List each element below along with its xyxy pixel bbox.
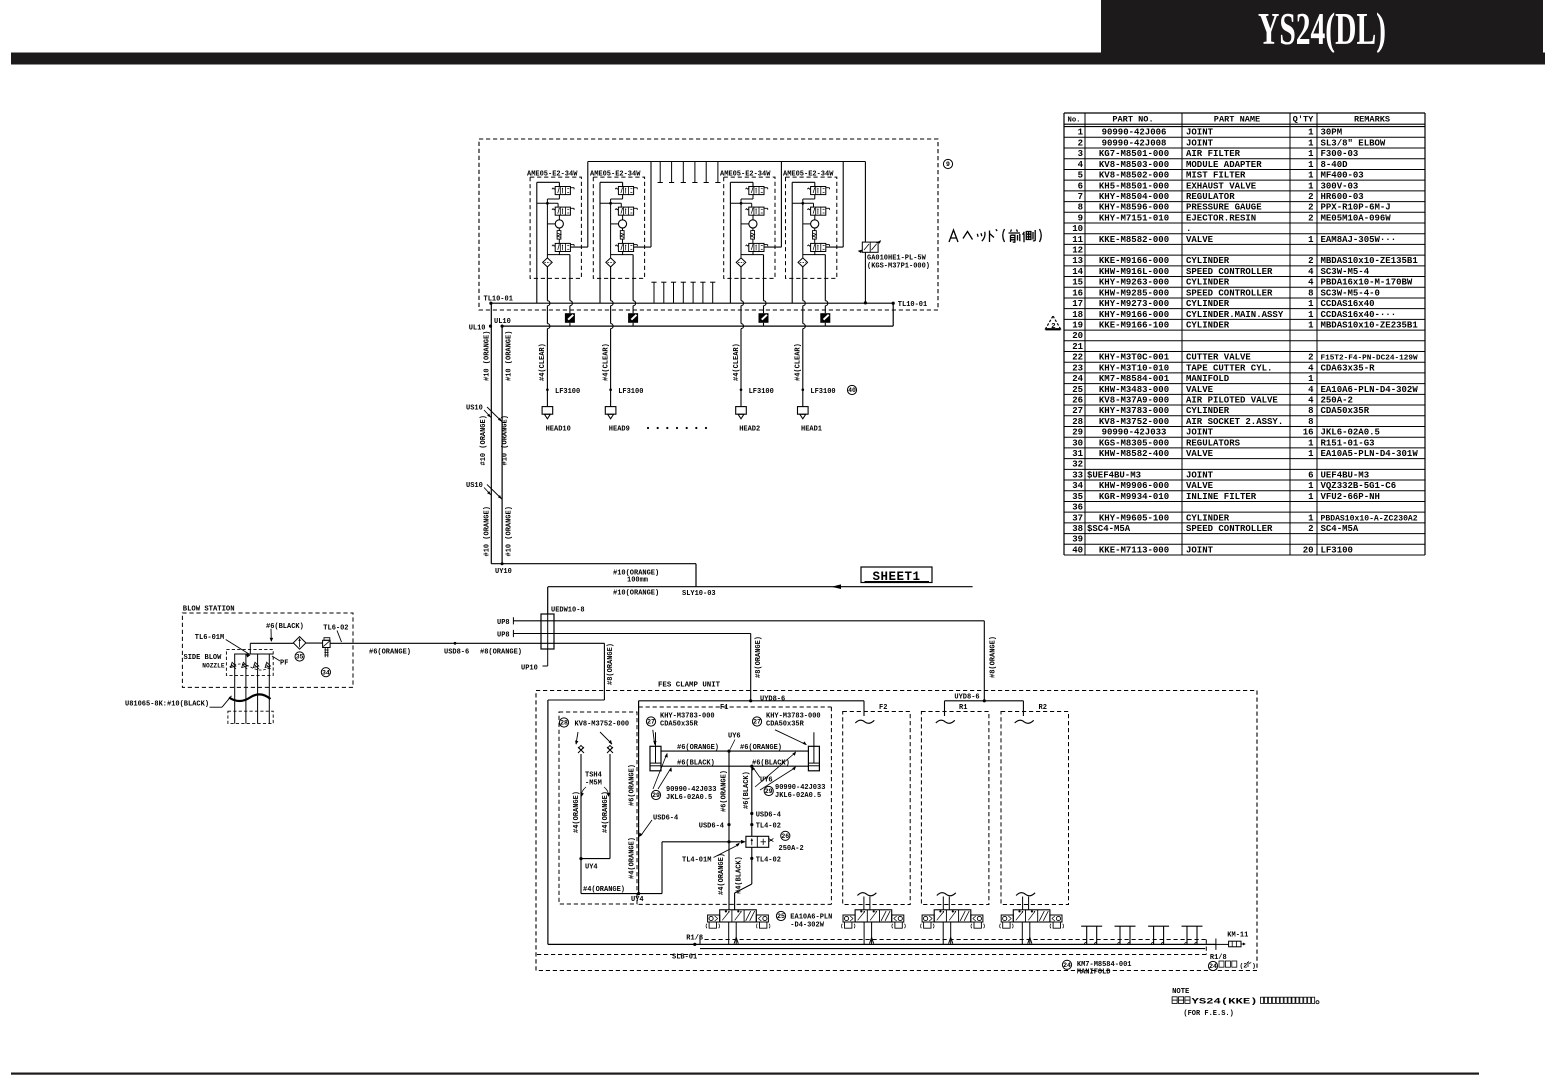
svg-text:MF400-03: MF400-03 (1321, 171, 1364, 181)
svg-text:33: 33 (1072, 470, 1083, 480)
svg-text:#6(ORANGE): #6(ORANGE) (369, 648, 411, 656)
svg-text:4: 4 (1308, 278, 1314, 288)
manifold port pair (1182, 926, 1203, 945)
valve group AME05 #1 (527, 162, 588, 407)
svg-text:CYLINDER: CYLINDER (1186, 406, 1230, 416)
label UY6 top (728, 733, 741, 750)
nozzles (184, 643, 274, 723)
wire #6 orange drop (727, 751, 730, 843)
label #6(BLACK) blow (266, 623, 304, 642)
svg-text:22: 22 (1072, 353, 1083, 363)
label UP10 (521, 649, 548, 672)
svg-text:SPEED CONTROLLER: SPEED CONTROLLER (1186, 267, 1273, 277)
label TL4-01M (682, 843, 740, 865)
svg-text:90990-42J033: 90990-42J033 (775, 784, 825, 792)
joint LF3100 / HEAD10 (539, 343, 580, 433)
svg-text:PART NAME: PART NAME (1214, 115, 1260, 125)
label UL10 (stub) (469, 325, 492, 333)
svg-text:KHY-M8504-000: KHY-M8504-000 (1099, 192, 1169, 202)
svg-text:2: 2 (1308, 192, 1313, 202)
ellipsis dots (647, 427, 707, 429)
svg-text:1: 1 (1078, 128, 1084, 138)
svg-text:EAM8AJ-305W···: EAM8AJ-305W··· (1321, 235, 1397, 245)
filter diamond circled 35 (293, 637, 306, 662)
svg-text:CYLINDER: CYLINDER (1186, 320, 1230, 330)
svg-text:25: 25 (1072, 385, 1083, 395)
svg-text:GA010HE1-PL-5W: GA010HE1-PL-5W (867, 255, 927, 263)
svg-text:#10 (ORANGE): #10 (ORANGE) (483, 506, 491, 556)
svg-text:#6(ORANGE): #6(ORANGE) (720, 770, 728, 812)
svg-text:31: 31 (1072, 449, 1083, 459)
label US10 upper (466, 405, 502, 422)
svg-text:#4(BLACK): #4(BLACK) (736, 856, 744, 894)
svg-text:MBDAS10x10-ZE135B1: MBDAS10x10-ZE135B1 (1321, 256, 1419, 266)
svg-text:1: 1 (1308, 299, 1314, 309)
svg-text:KV8-M8503-000: KV8-M8503-000 (1099, 160, 1169, 170)
circled 9 (ejector ref) (943, 159, 952, 168)
A-head enclosure dashed box (479, 139, 938, 310)
wire top manifold (588, 161, 866, 163)
svg-text:HEAD1: HEAD1 (801, 425, 822, 433)
svg-text:LF3100: LF3100 (618, 388, 643, 396)
svg-text:#6(BLACK): #6(BLACK) (752, 759, 790, 767)
svg-text:#10 (ORANGE): #10 (ORANGE) (502, 415, 510, 465)
wire #6 orange bus F1 (661, 750, 808, 753)
svg-text:1: 1 (1308, 481, 1314, 491)
svg-text:2: 2 (1308, 256, 1313, 266)
svg-text:BLOW STATION: BLOW STATION (183, 606, 235, 614)
valve group AME05 #4 (783, 162, 843, 407)
svg-text:FES CLAMP UNIT: FES CLAMP UNIT (658, 682, 721, 690)
svg-text:AME05-E2-34W: AME05-E2-34W (783, 170, 834, 178)
svg-text:.: . (1186, 224, 1191, 234)
svg-text:#10 (ORANGE): #10 (ORANGE) (483, 331, 491, 381)
manifold port pair (1148, 926, 1169, 945)
manifold port pair (1115, 926, 1136, 945)
svg-text:8-40D: 8-40D (1321, 160, 1349, 170)
svg-text:SC3W-M5-4: SC3W-M5-4 (1321, 267, 1370, 277)
valve group AME05 #3 (720, 162, 781, 407)
svg-text:R151-01-G3: R151-01-G3 (1321, 438, 1375, 448)
stubs from TL10-01 (bottom comb) (651, 282, 715, 303)
svg-text:VALVE: VALVE (1186, 235, 1214, 245)
wire UY10 header (491, 562, 696, 587)
bundle wavy + cable label (125, 694, 271, 708)
svg-text:30: 30 (1072, 438, 1083, 448)
svg-text:#8(ORANGE): #8(ORANGE) (480, 648, 522, 656)
svg-text:30PM: 30PM (1321, 128, 1343, 138)
svg-text:TL4-02: TL4-02 (756, 822, 781, 830)
svg-text:#6(BLACK): #6(BLACK) (743, 771, 751, 809)
svg-text:23: 23 (1072, 363, 1083, 373)
svg-text:4: 4 (1308, 267, 1314, 277)
svg-text:16: 16 (1303, 428, 1314, 438)
label GA010HE1 (867, 255, 930, 271)
svg-text:KHY-M9273-000: KHY-M9273-000 (1099, 299, 1169, 309)
valve stem stub (857, 893, 876, 910)
svg-text:JOINT: JOINT (1186, 428, 1214, 438)
svg-text:20: 20 (1072, 331, 1083, 341)
svg-text:F1: F1 (720, 704, 728, 712)
svg-text:#4(CLEAR): #4(CLEAR) (602, 343, 610, 381)
svg-text:28: 28 (560, 720, 568, 727)
wire SLB-01 bus (548, 936, 1216, 950)
svg-text:LF3100: LF3100 (810, 388, 835, 396)
svg-text:REMARKS: REMARKS (1354, 115, 1390, 125)
svg-text:JOINT: JOINT (1186, 470, 1214, 480)
svg-text:-D4-302W: -D4-302W (790, 922, 824, 930)
svg-text:100mm: 100mm (627, 576, 648, 584)
junction block UEDW10-8 (541, 587, 554, 649)
wire F1 left pipe (638, 701, 640, 894)
svg-text:HEAD10: HEAD10 (546, 425, 571, 433)
svg-text:CCDAS16x40-···: CCDAS16x40-··· (1321, 310, 1397, 320)
svg-text:1: 1 (1308, 438, 1314, 448)
svg-text:PBDAS10x10-A-ZC230A2: PBDAS10x10-A-ZC230A2 (1321, 514, 1418, 523)
svg-text:LF3100: LF3100 (749, 388, 774, 396)
svg-text:VALVE: VALVE (1186, 481, 1214, 491)
svg-text:8: 8 (1308, 406, 1313, 416)
label USD6-4 #1 (639, 814, 679, 837)
svg-text:34: 34 (322, 669, 330, 676)
svg-text:#4(ORANGE): #4(ORANGE) (583, 886, 625, 894)
svg-text:USD6-4: USD6-4 (653, 814, 678, 822)
svg-text:JOINT: JOINT (1186, 545, 1214, 555)
svg-text:US10: US10 (466, 482, 483, 490)
svg-text:AME05-E2-34W: AME05-E2-34W (720, 170, 771, 178)
svg-text:US10: US10 (466, 405, 483, 413)
silencer KM-11 (1216, 931, 1248, 946)
wire #8 down into FES (548, 643, 605, 944)
svg-text:8: 8 (1078, 203, 1083, 213)
svg-text:#10(ORANGE): #10(ORANGE) (613, 589, 659, 597)
circled 29 right (755, 751, 825, 800)
svg-text:2: 2 (1308, 213, 1313, 223)
svg-text:CYLINDER: CYLINDER (1186, 256, 1230, 266)
wire pilot TL4-01M (662, 840, 746, 844)
svg-text:F15T2-F4-PN-DC24-129W: F15T2-F4-PN-DC24-129W (1321, 355, 1418, 363)
svg-text:2: 2 (1308, 524, 1313, 534)
wire #6 black bus F1 (661, 765, 808, 768)
svg-text:ME05M10A-096W: ME05M10A-096W (1321, 213, 1392, 223)
svg-text:#8(ORANGE): #8(ORANGE) (990, 636, 998, 678)
svg-text:1: 1 (1308, 138, 1314, 148)
circled 25 EA label (776, 911, 832, 929)
svg-text:R1/8: R1/8 (686, 935, 703, 943)
labels on blow line (369, 648, 522, 656)
svg-text:KV8-M3752-000: KV8-M3752-000 (1099, 417, 1169, 427)
valve EA10A6 #4 (1000, 910, 1064, 945)
svg-text:6: 6 (1308, 470, 1313, 480)
svg-text:KH5-M8501-000: KH5-M8501-000 (1099, 181, 1169, 191)
svg-text:4: 4 (1078, 160, 1084, 170)
svg-text:AME05-E2-34W: AME05-E2-34W (590, 170, 641, 178)
valve stem stub (1016, 893, 1035, 910)
svg-text:1: 1 (1308, 160, 1314, 170)
svg-text:SLY10-03: SLY10-03 (682, 590, 716, 598)
svg-text:R1: R1 (959, 704, 967, 712)
section box R1 (921, 704, 989, 905)
svg-text:4: 4 (1308, 385, 1314, 395)
wire blow main line (250, 642, 604, 645)
wire #6 black drop (750, 766, 753, 836)
section box R2 (1001, 704, 1069, 905)
svg-text:UP8: UP8 (497, 632, 510, 640)
svg-text:20: 20 (1303, 545, 1314, 555)
svg-text:40: 40 (1072, 545, 1083, 555)
manifold dashed box (537, 940, 1206, 955)
svg-text:13: 13 (1072, 256, 1083, 266)
svg-text:EA10A6-PLN-D4-302W: EA10A6-PLN-D4-302W (1321, 385, 1419, 395)
label manifold KM7 (1062, 960, 1131, 976)
svg-text:CYLINDER: CYLINDER (1186, 513, 1230, 523)
wire SLY10-03 (548, 584, 973, 589)
svg-text:#4(ORANGE): #4(ORANGE) (629, 837, 637, 879)
svg-text:NOTE: NOTE (1172, 988, 1190, 996)
caption A-head (front side) (949, 229, 1041, 242)
svg-text:$UEF4BU-M3: $UEF4BU-M3 (1087, 470, 1141, 480)
top rule bar (11, 53, 1545, 65)
svg-text:KKE-M9166-000: KKE-M9166-000 (1099, 256, 1169, 266)
svg-text:35: 35 (296, 654, 304, 661)
svg-text:UY4: UY4 (631, 896, 644, 904)
svg-text:36: 36 (1072, 503, 1083, 513)
svg-text:KV8-M8502-000: KV8-M8502-000 (1099, 171, 1169, 181)
svg-text:KHY-M7151-010: KHY-M7151-010 (1099, 213, 1169, 223)
svg-text:#8(ORANGE): #8(ORANGE) (607, 643, 615, 685)
svg-text:LF3100: LF3100 (1321, 545, 1353, 555)
svg-text:KHW-M9906-000: KHW-M9906-000 (1099, 481, 1169, 491)
svg-text:REGULATORS: REGULATORS (1186, 438, 1241, 448)
svg-text:90990-42J006: 90990-42J006 (1102, 128, 1167, 138)
svg-text:CYLINDER: CYLINDER (1186, 299, 1230, 309)
svg-text:1: 1 (1308, 181, 1314, 191)
svg-text:38: 38 (1072, 524, 1083, 534)
svg-text:R2: R2 (1039, 704, 1047, 712)
svg-text:40: 40 (848, 387, 856, 394)
svg-text:TAPE CUTTER CYL.: TAPE CUTTER CYL. (1186, 363, 1272, 373)
bottom rule (11, 1073, 1479, 1075)
label #10(ORANGE) 100mm (613, 569, 659, 584)
svg-text:UY4: UY4 (585, 863, 598, 871)
svg-text:KHY-M3783-000: KHY-M3783-000 (766, 713, 821, 721)
svg-text:KKE-M8582-000: KKE-M8582-000 (1099, 235, 1169, 245)
svg-text:#6(BLACK): #6(BLACK) (266, 623, 304, 631)
svg-text:PBDA16x10-M-170BW: PBDA16x10-M-170BW (1321, 278, 1413, 288)
svg-text:24: 24 (1072, 374, 1083, 384)
svg-text:MODULE ADAPTER: MODULE ADAPTER (1186, 160, 1262, 170)
valve EA10A6 #2 (841, 910, 905, 945)
svg-text:#10 (ORANGE): #10 (ORANGE) (506, 331, 514, 381)
svg-text:KHY-M3783-000: KHY-M3783-000 (660, 713, 715, 721)
svg-text:-M5M: -M5M (585, 780, 602, 788)
label R1/8 right + circled24 (1208, 954, 1256, 971)
svg-text:MIST FILTER: MIST FILTER (1186, 171, 1246, 181)
svg-text:U81065-8K:#10(BLACK): U81065-8K:#10(BLACK) (125, 700, 209, 708)
wires TSH4 pair (579, 754, 662, 895)
svg-text:#10 (ORANGE): #10 (ORANGE) (506, 506, 514, 556)
svg-text:3: 3 (1078, 149, 1083, 159)
svg-text:25: 25 (777, 913, 785, 920)
svg-text:UY6: UY6 (728, 733, 741, 741)
svg-text:AME05-E2-34W: AME05-E2-34W (527, 170, 578, 178)
label #10(ORANGE) SLY (613, 589, 716, 598)
svg-text:UEDW10-8: UEDW10-8 (551, 607, 585, 615)
svg-text:29: 29 (765, 788, 773, 795)
svg-text:KGS-M8305-000: KGS-M8305-000 (1099, 438, 1169, 448)
svg-text:KHW-M3483-000: KHW-M3483-000 (1099, 385, 1169, 395)
circled 29 left (651, 753, 716, 802)
svg-text:SPEED CONTROLLER: SPEED CONTROLLER (1186, 288, 1273, 298)
svg-text:UEF4BU-M3: UEF4BU-M3 (1321, 470, 1370, 480)
svg-text:KHY-M9263-000: KHY-M9263-000 (1099, 278, 1169, 288)
svg-text:9: 9 (946, 161, 950, 168)
title block (1101, 0, 1543, 54)
svg-text:USD6-4: USD6-4 (699, 822, 724, 830)
svg-text:No.: No. (1068, 117, 1081, 125)
svg-text:#8(ORANGE): #8(ORANGE) (755, 636, 763, 678)
joint LF3100 / HEAD1 (795, 343, 836, 433)
svg-text:#4(CLEAR): #4(CLEAR) (795, 343, 803, 381)
svg-text:VQZ332B-5G1-C6: VQZ332B-5G1-C6 (1321, 481, 1397, 491)
svg-text:SC3W-M5-4-0: SC3W-M5-4-0 (1321, 288, 1380, 298)
svg-text:VALVE: VALVE (1186, 385, 1214, 395)
svg-text:1: 1 (1308, 320, 1314, 330)
svg-text:JKL6-02A0.5: JKL6-02A0.5 (666, 794, 712, 802)
svg-text:KGR-M9934-010: KGR-M9934-010 (1099, 492, 1169, 502)
svg-text:F2: F2 (879, 704, 887, 712)
svg-text:USD6-4: USD6-4 (756, 812, 781, 820)
svg-text:CYLINDER.MAIN.ASSY: CYLINDER.MAIN.ASSY (1186, 310, 1284, 320)
svg-text:HR600-03: HR600-03 (1321, 192, 1364, 202)
svg-text:EXHAUST VALVE: EXHAUST VALVE (1186, 181, 1257, 191)
svg-text:HEAD9: HEAD9 (609, 425, 630, 433)
svg-text:SIDE BLOW: SIDE BLOW (184, 654, 223, 662)
NOTE text (1172, 988, 1319, 1018)
wire UP8 line1 (513, 617, 984, 701)
wire #10 orange line 1 (490, 303, 492, 564)
svg-text:KHW-M916L-000: KHW-M916L-000 (1099, 267, 1169, 277)
svg-text:5: 5 (1078, 171, 1083, 181)
svg-text:KG7-M8501-000: KG7-M8501-000 (1099, 149, 1169, 159)
wire TL10-01 bus (489, 301, 895, 305)
assembly note triangle (1046, 316, 1061, 331)
svg-text:KV8-M3752-000: KV8-M3752-000 (575, 721, 630, 729)
svg-text:26: 26 (781, 833, 789, 840)
svg-text:29: 29 (1072, 428, 1083, 438)
svg-text:90990-42J008: 90990-42J008 (1102, 138, 1167, 148)
circled 40 (847, 385, 856, 394)
svg-text:CUTTER VALVE: CUTTER VALVE (1186, 353, 1251, 363)
label TSH4-M5M (580, 772, 610, 797)
svg-text:PART NO.: PART NO. (1112, 115, 1153, 125)
svg-text:PF: PF (280, 660, 288, 668)
F1 section box (639, 704, 832, 904)
svg-text:27: 27 (1072, 406, 1083, 416)
svg-text:#4(ORANGE): #4(ORANGE) (573, 791, 581, 833)
svg-text:37: 37 (1072, 513, 1083, 523)
svg-text:MANIFOLD: MANIFOLD (1077, 968, 1111, 976)
svg-text:CDA50x35R: CDA50x35R (660, 721, 699, 729)
svg-text:YS24(DL): YS24(DL) (1258, 4, 1386, 54)
svg-text:REGULATOR: REGULATOR (1186, 192, 1235, 202)
svg-text:250A-2: 250A-2 (779, 845, 804, 853)
svg-text:#10 (ORANGE): #10 (ORANGE) (480, 415, 488, 465)
svg-text:LF3100: LF3100 (555, 388, 580, 396)
svg-text:#4(CLEAR): #4(CLEAR) (733, 343, 741, 381)
SHEET1 box (861, 567, 932, 584)
wire #4 orange to valve1 (728, 842, 730, 910)
svg-text:AIR PILOTED VALVE: AIR PILOTED VALVE (1186, 395, 1278, 405)
label TL6-01M (195, 634, 251, 657)
wire #4 black to valve1 (735, 847, 754, 910)
svg-text:INLINE FILTER: INLINE FILTER (1186, 492, 1257, 502)
svg-text:UP8: UP8 (497, 619, 510, 627)
joint LF3100 / HEAD9 (602, 343, 643, 433)
svg-text:TL4-01M: TL4-01M (682, 857, 711, 865)
svg-text:2: 2 (1078, 138, 1083, 148)
svg-text:34: 34 (1072, 481, 1083, 491)
svg-text:UYD8-6: UYD8-6 (760, 695, 785, 703)
svg-text:CDA50x35R: CDA50x35R (766, 721, 805, 729)
svg-text:KM-11: KM-11 (1227, 931, 1248, 939)
svg-text:EA10A6-PLN: EA10A6-PLN (790, 914, 832, 922)
svg-text:11: 11 (1072, 235, 1083, 245)
svg-text:12: 12 (1072, 246, 1083, 256)
svg-text:#4(ORANGE): #4(ORANGE) (718, 853, 726, 895)
labels #6 orange (677, 744, 782, 752)
svg-text:CCDAS16x40: CCDAS16x40 (1321, 299, 1375, 309)
valve 250A-2 circled 26 (746, 831, 804, 853)
svg-text:JKL6-02A0.5: JKL6-02A0.5 (1321, 428, 1380, 438)
svg-text:7: 7 (1078, 192, 1083, 202)
svg-text:1: 1 (1308, 149, 1314, 159)
svg-text:VALVE: VALVE (1186, 449, 1214, 459)
air socket section box 26 (559, 712, 637, 904)
svg-text:1: 1 (1308, 449, 1314, 459)
svg-text:9: 9 (1078, 213, 1083, 223)
svg-text:AIR FILTER: AIR FILTER (1186, 149, 1241, 159)
svg-text:KHW-M8582-400: KHW-M8582-400 (1099, 449, 1169, 459)
svg-text:16: 16 (1072, 288, 1083, 298)
svg-text:CDA63x35-R: CDA63x35-R (1321, 363, 1376, 373)
svg-text:27: 27 (647, 719, 655, 726)
svg-text:24: 24 (1063, 962, 1071, 969)
svg-text:KHY-M3T10-010: KHY-M3T10-010 (1099, 363, 1169, 373)
valve stem stub (937, 893, 956, 910)
svg-text:24: 24 (1209, 963, 1217, 970)
svg-text:39: 39 (1072, 535, 1083, 545)
svg-text:250A-2: 250A-2 (1321, 395, 1353, 405)
cylinder KHY-M3783 right (752, 713, 820, 771)
svg-text:KKE-M9166-100: KKE-M9166-100 (1099, 320, 1169, 330)
svg-text:1: 1 (1308, 171, 1314, 181)
labels #6 black (677, 759, 790, 767)
svg-text:28: 28 (1072, 417, 1083, 427)
svg-text:19: 19 (1072, 320, 1083, 330)
svg-text:#6(ORANGE): #6(ORANGE) (677, 744, 719, 752)
svg-text:1: 1 (1308, 492, 1314, 502)
svg-text:15: 15 (1072, 278, 1083, 288)
svg-text:JKL6-02A0.5: JKL6-02A0.5 (775, 792, 821, 800)
svg-text:32: 32 (1072, 460, 1083, 470)
air sockets pair (575, 732, 613, 753)
svg-text:Q'TY: Q'TY (1293, 115, 1314, 125)
svg-text:90990-42J033: 90990-42J033 (666, 786, 716, 794)
svg-text:HEAD2: HEAD2 (739, 425, 760, 433)
wire UP8 line2 (513, 630, 750, 701)
svg-text:(2: (2 (1240, 963, 1248, 970)
